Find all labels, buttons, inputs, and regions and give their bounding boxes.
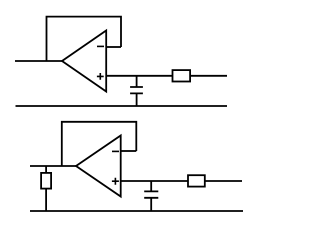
resistor R1 xyxy=(173,70,191,81)
op-amp U1 xyxy=(62,31,106,92)
pin label minus U1 xyxy=(97,45,104,47)
wire inverting input U2 xyxy=(121,150,137,152)
wire output of U2 to left edge xyxy=(30,165,76,167)
wire ground rail top circuit xyxy=(16,105,228,107)
wire R2 top lead xyxy=(45,166,47,173)
wire output of U1 to left edge xyxy=(15,60,62,62)
wire feedback loop U1 output to inverting input xyxy=(47,17,122,61)
resistor R3 xyxy=(188,175,205,186)
pin label plus U1 xyxy=(97,73,104,80)
wire inverting input U1 xyxy=(106,46,121,48)
op-amp U2 xyxy=(76,136,121,197)
resistor R2 xyxy=(41,173,51,189)
wire ground rail bottom circuit xyxy=(30,210,243,212)
wire non-inverting input U1 to right edge xyxy=(106,75,227,77)
capacitor C1 xyxy=(130,76,143,106)
capacitor C2 xyxy=(144,181,158,211)
wire non-inverting input U2 to right edge xyxy=(121,180,242,182)
wire feedback loop U2 output to inverting input xyxy=(62,122,137,166)
wire R2 bottom lead xyxy=(45,189,47,211)
pin label minus U2 xyxy=(112,150,119,152)
pin label plus U2 xyxy=(112,178,119,185)
